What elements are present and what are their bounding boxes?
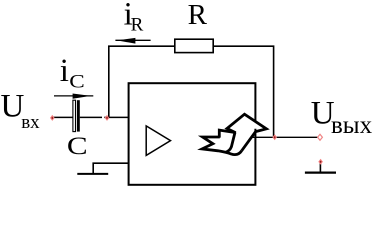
svg-text:R: R [131,14,144,35]
svg-text:вых: вых [331,112,373,139]
svg-text:C: C [67,132,88,160]
svg-text:C: C [69,71,84,93]
svg-text:R: R [188,0,208,31]
svg-text:i: i [60,53,69,89]
svg-text:вх: вх [21,112,40,133]
